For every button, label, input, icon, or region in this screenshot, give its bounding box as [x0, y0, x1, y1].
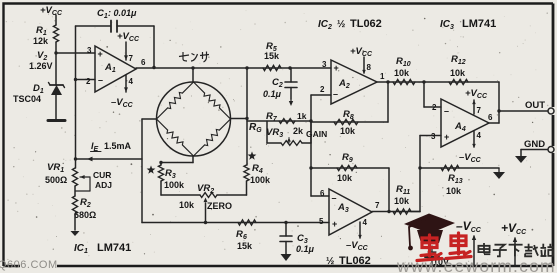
- svg-text:6: 6: [243, 234, 247, 241]
- svg-text:10k: 10k: [394, 68, 410, 78]
- svg-text:3: 3: [87, 46, 92, 55]
- svg-text:2: 2: [86, 77, 91, 86]
- svg-text:10k: 10k: [446, 186, 462, 196]
- svg-text:6: 6: [488, 113, 493, 122]
- svg-text:GND: GND: [524, 139, 545, 150]
- svg-text:10k: 10k: [450, 68, 466, 78]
- svg-text:1.26V: 1.26V: [29, 61, 53, 71]
- svg-text:15k: 15k: [237, 241, 253, 251]
- svg-text:+: +: [334, 63, 339, 73]
- svg-text:+: +: [444, 132, 449, 142]
- svg-text:OUT: OUT: [525, 100, 545, 111]
- svg-text:100k: 100k: [164, 180, 185, 190]
- svg-text:4: 4: [477, 131, 482, 140]
- svg-text:TL062: TL062: [339, 255, 371, 267]
- svg-text:8: 8: [367, 63, 372, 72]
- svg-text:LM741: LM741: [97, 242, 131, 254]
- svg-text:CUR: CUR: [93, 170, 111, 180]
- svg-text:0.1μ: 0.1μ: [263, 89, 282, 99]
- svg-text:15k: 15k: [264, 51, 280, 61]
- svg-text:3: 3: [322, 60, 327, 69]
- svg-text:5: 5: [319, 217, 324, 226]
- svg-text:12k: 12k: [33, 36, 49, 46]
- svg-text:–: –: [332, 193, 337, 203]
- svg-text:1: 1: [380, 72, 385, 81]
- svg-text:4: 4: [129, 77, 134, 86]
- svg-text:500Ω: 500Ω: [45, 175, 67, 185]
- svg-text:: 0.01μ: : 0.01μ: [108, 8, 137, 18]
- svg-text:0.1μ: 0.1μ: [296, 244, 315, 254]
- svg-text:LM741: LM741: [462, 18, 496, 30]
- svg-text:10k: 10k: [394, 196, 410, 206]
- svg-text:TSC04: TSC04: [13, 94, 41, 104]
- svg-text:Q606.COM: Q606.COM: [0, 259, 58, 271]
- svg-text:7: 7: [375, 201, 380, 210]
- svg-text:4: 4: [363, 218, 368, 227]
- svg-text:6: 6: [141, 58, 146, 67]
- svg-text:ADJ: ADJ: [95, 180, 112, 190]
- svg-text:7: 7: [129, 54, 134, 63]
- svg-text:+: +: [332, 219, 337, 229]
- svg-text:100k: 100k: [250, 175, 271, 185]
- svg-text:ZERO: ZERO: [207, 201, 232, 211]
- svg-text:+: +: [98, 49, 103, 59]
- svg-text:2: 2: [320, 85, 325, 94]
- svg-text:GAIN: GAIN: [306, 129, 327, 139]
- svg-text:1.5mA: 1.5mA: [104, 141, 132, 151]
- svg-text:680Ω: 680Ω: [74, 210, 96, 220]
- svg-text:7: 7: [477, 106, 482, 115]
- svg-text:www.eeworm.com: www.eeworm.com: [396, 256, 556, 273]
- svg-text:10k: 10k: [337, 173, 353, 183]
- svg-text:1k: 1k: [297, 111, 307, 121]
- svg-text:R: R: [236, 229, 243, 240]
- svg-text:TL062: TL062: [350, 18, 382, 30]
- svg-text:–: –: [444, 106, 449, 116]
- svg-text:–: –: [333, 89, 338, 99]
- svg-text:3: 3: [431, 132, 436, 141]
- svg-text:½: ½: [337, 19, 345, 30]
- svg-text:10k: 10k: [179, 200, 195, 210]
- svg-text:–: –: [98, 75, 103, 85]
- svg-text:10k: 10k: [340, 126, 356, 136]
- svg-text:2k: 2k: [293, 126, 304, 136]
- svg-text:½: ½: [326, 256, 334, 267]
